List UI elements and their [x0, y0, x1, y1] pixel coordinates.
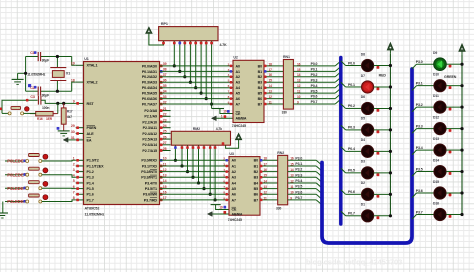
RP1 pin 5 vertical to P0.3	[189, 41, 191, 83]
svg-text:P2.7/A15: P2.7/A15	[142, 149, 157, 153]
svg-text:D8: D8	[361, 52, 365, 56]
svg-text:16: 16	[264, 168, 268, 172]
svg-text:3: 3	[73, 168, 75, 172]
svg-text:16: 16	[290, 157, 294, 161]
svg-text:B6: B6	[254, 193, 258, 197]
bus entry P3.1	[316, 166, 322, 171]
svg-text:GREEN: GREEN	[444, 75, 457, 79]
svg-text:11: 11	[264, 196, 267, 200]
junction rail D1	[389, 214, 392, 217]
resistor pack RM2 4.7k	[171, 131, 230, 145]
svg-text:P3.5/T1: P3.5/T1	[145, 187, 157, 191]
wire P3.1 from U1 to U3 A1	[160, 165, 230, 167]
svg-text:17: 17	[269, 68, 273, 72]
button K2 net P0LEDE	[5, 174, 26, 176]
svg-text:D14: D14	[433, 158, 439, 162]
svg-text:U3: U3	[229, 152, 233, 156]
svg-text:A6: A6	[232, 193, 236, 197]
svg-text:U1: U1	[84, 57, 89, 61]
svg-text:23: 23	[163, 118, 167, 122]
crystal X1 11.0592MHz	[50, 67, 66, 69]
junction rail D16	[460, 213, 463, 216]
capacitor C1 30pF	[37, 52, 39, 61]
RP1 pin 7 vertical to P0.5	[200, 41, 202, 93]
svg-text:A1: A1	[236, 70, 240, 74]
svg-text:CE: CE	[236, 112, 241, 116]
cathode rail left LED column	[389, 54, 391, 216]
svg-text:P0.1: P0.1	[311, 67, 318, 71]
svg-text:14: 14	[290, 168, 294, 172]
cathode rail right LED column	[461, 55, 463, 214]
junction RP1 on P0.7	[210, 102, 213, 105]
svg-text:D3: D3	[361, 160, 365, 164]
svg-text:13: 13	[264, 185, 268, 189]
svg-text:A6: A6	[236, 97, 240, 101]
wire LED D10 cathode to rail	[446, 85, 462, 87]
wire P3.6 from U1 to U3 A6	[160, 193, 230, 195]
svg-text:P0.7: P0.7	[348, 212, 355, 216]
svg-text:13: 13	[297, 79, 301, 83]
svg-text:B5: B5	[254, 187, 258, 191]
wire P0.3 from U1 to U2 A3	[160, 81, 234, 83]
svg-text:14: 14	[297, 73, 301, 77]
svg-text:A4: A4	[236, 86, 240, 90]
svg-text:P3.7: P3.7	[295, 196, 302, 200]
svg-text:10: 10	[290, 191, 294, 195]
wire P0.0 from U1 to U2 A0	[160, 65, 234, 67]
bus entry P3.6	[316, 194, 322, 199]
bus entry P3.3	[316, 177, 322, 182]
svg-text:A3: A3	[236, 81, 240, 85]
svg-text:P3.1: P3.1	[295, 162, 302, 166]
resistor R16 horizontal	[36, 112, 53, 116]
wire crystal ground branch	[25, 57, 27, 92]
bus entry P3.2	[316, 172, 322, 177]
svg-text:15: 15	[264, 174, 268, 178]
svg-text:27: 27	[163, 141, 167, 145]
svg-text:22: 22	[163, 113, 167, 117]
wire buttons common to ground	[2, 202, 4, 213]
RP1 pin 6 vertical to P0.4	[195, 41, 197, 88]
svg-text:B7: B7	[258, 102, 262, 106]
svg-text:RP1: RP1	[161, 22, 168, 26]
svg-text:P3.5: P3.5	[416, 167, 423, 171]
svg-text:A0: A0	[232, 159, 236, 163]
wire LED D8 cathode to rail	[374, 65, 391, 67]
svg-text:RM2: RM2	[193, 127, 200, 131]
svg-text:P0.0/AD0: P0.0/AD0	[142, 64, 157, 68]
wire P3.7 from U1 to U3 A7	[160, 199, 230, 201]
svg-text:13: 13	[290, 174, 294, 178]
wire button K2 to U1	[42, 175, 76, 178]
junction RP1 on P0.5	[200, 92, 203, 95]
bus exit P0.5 to LED D3	[341, 168, 346, 173]
wire LED D13 cathode to rail	[446, 149, 462, 151]
wire C3 to RST node	[41, 100, 75, 103]
wire LED D2 cathode to rail	[374, 193, 391, 195]
svg-text:P0.2: P0.2	[311, 73, 318, 77]
svg-text:P0.0: P0.0	[311, 62, 318, 66]
svg-text:P2.6/A14: P2.6/A14	[142, 143, 158, 147]
svg-text:74HC245: 74HC245	[232, 124, 246, 128]
svg-text:14: 14	[264, 179, 268, 183]
svg-text:RN2: RN2	[277, 151, 284, 155]
bus entry P0.1	[335, 66, 341, 71]
wire P0.4 from U1 to U2 A4	[160, 87, 234, 89]
junction RM2 on P3.6	[209, 193, 212, 196]
bus exit P3.5 to LED D14	[412, 172, 417, 177]
wire button K4 to U1	[42, 200, 76, 202]
svg-text:74HC245: 74HC245	[228, 218, 242, 222]
svg-text:18: 18	[264, 157, 268, 161]
VCC power arrow right LED column	[461, 51, 463, 55]
wire P3.0 from U1 to U3 A0	[160, 159, 230, 161]
wire P0.2 from U1 to U2 A2	[160, 76, 234, 78]
junction rail D5	[389, 128, 392, 131]
svg-text:P0LEDE: P0LEDE	[7, 159, 24, 164]
svg-text:B0: B0	[258, 64, 262, 68]
svg-text:U2: U2	[233, 56, 237, 60]
svg-text:A2: A2	[236, 75, 240, 79]
bus entry P0.6	[335, 94, 341, 99]
junction rail D2	[389, 193, 392, 196]
bus entry P0.3	[335, 77, 341, 82]
bus exit P3.2 to LED D11	[412, 107, 417, 112]
svg-text:P2.4/A12: P2.4/A12	[142, 132, 157, 136]
svg-text:B2: B2	[258, 75, 262, 79]
svg-text:14: 14	[269, 84, 273, 88]
state square near R17 ground	[57, 127, 60, 130]
junction rail D6	[389, 107, 392, 110]
RM2 pin vertical to P3.0	[174, 145, 176, 160]
svg-text:D9: D9	[433, 51, 437, 55]
svg-text:C3: C3	[30, 95, 34, 99]
svg-text:RN1: RN1	[283, 55, 290, 59]
button K1 net P0LEDE	[5, 160, 26, 162]
svg-text:P3.6: P3.6	[295, 190, 302, 194]
svg-text:B1: B1	[254, 164, 258, 168]
wire XTAL2 net: C2 to X1 bottom and U1 XTAL2	[26, 90, 38, 92]
junction RM2 on P3.4	[197, 181, 200, 184]
wire LED D3 cathode to rail	[374, 172, 391, 174]
svg-text:12: 12	[264, 191, 268, 195]
svg-text:7: 7	[73, 191, 75, 195]
RM2 pin vertical to P3.1	[181, 145, 183, 166]
resistor network RN1 330	[283, 60, 293, 110]
bus entry P3.4	[316, 183, 322, 188]
svg-text:13: 13	[269, 90, 273, 94]
svg-text:P3.2: P3.2	[416, 103, 423, 107]
svg-text:P3.1/TXD: P3.1/TXD	[142, 164, 158, 168]
wire P0.6 from U1 to U2 A6	[160, 98, 234, 100]
red cap of button K2	[43, 168, 48, 173]
svg-text:P3.4: P3.4	[416, 146, 423, 150]
RM2 pin vertical to P3.5	[203, 145, 205, 188]
junction RM2 on P3.0	[174, 159, 177, 162]
IC U2 74HC245 body	[233, 60, 264, 122]
svg-text:15: 15	[290, 162, 294, 166]
svg-text:P2.2/A10: P2.2/A10	[142, 120, 157, 124]
svg-text:A4: A4	[232, 181, 236, 185]
RP1 pin 9 vertical to P0.7	[211, 41, 213, 109]
terminal arrow on U3 AB/BA	[212, 213, 229, 215]
svg-text:B7: B7	[254, 198, 258, 202]
svg-text:P0.3/AD3: P0.3/AD3	[142, 81, 157, 85]
wire VCC to C3	[2, 99, 38, 101]
junction crystal gnd	[24, 72, 27, 75]
junction RM2 on P3.7	[214, 198, 217, 201]
svg-text:P3.4: P3.4	[295, 179, 302, 183]
bus exit P3.6 to LED D15	[412, 193, 417, 198]
svg-text:P0.4/AD4: P0.4/AD4	[142, 86, 158, 90]
svg-text:P3.2/INT0: P3.2/INT0	[141, 170, 157, 174]
wire P3.4 from U1 to U3 A4	[160, 182, 230, 184]
svg-text:P3.6: P3.6	[416, 189, 423, 193]
wire LED D6 cathode to rail	[374, 107, 391, 109]
junction rail D8	[389, 64, 392, 67]
svg-text:19: 19	[223, 110, 227, 114]
svg-text:30pF: 30pF	[42, 59, 50, 63]
svg-text:P1.1/T2EX: P1.1/T2EX	[87, 164, 105, 168]
svg-text:P3.5: P3.5	[295, 185, 302, 189]
red cap of reset button	[25, 107, 30, 112]
svg-text:2: 2	[73, 162, 75, 166]
bus exit P0.7 to LED D1	[341, 211, 346, 216]
svg-text:D12: D12	[433, 115, 439, 119]
svg-text:D15: D15	[433, 180, 439, 184]
svg-text:29: 29	[71, 124, 75, 128]
RP1 pin 8 vertical to P0.6	[205, 41, 207, 99]
svg-text:P0.4: P0.4	[311, 84, 318, 88]
svg-text:P3.1: P3.1	[416, 81, 423, 85]
resistor R17 4k7 vertical	[61, 108, 66, 124]
wire LED D15 cathode to rail	[446, 192, 462, 194]
IC U3 74HC245 body	[229, 157, 260, 216]
RN1 output wires with net labels P0.x	[293, 65, 335, 67]
svg-text:16: 16	[297, 62, 301, 66]
svg-text:P0.1: P0.1	[348, 83, 355, 87]
svg-text:P1.7: P1.7	[87, 198, 94, 202]
wire P3.5 from U1 to U3 A5	[160, 188, 230, 190]
svg-text:P2.0/A8: P2.0/A8	[144, 109, 157, 113]
svg-text:P0.5: P0.5	[311, 89, 318, 93]
junction RP1 on P0.1	[178, 70, 181, 73]
svg-text:P3.2: P3.2	[295, 168, 302, 172]
svg-text:A7: A7	[236, 102, 240, 106]
svg-text:A2: A2	[232, 170, 236, 174]
svg-text:11.0592MHz: 11.0592MHz	[85, 212, 105, 216]
junction rail D3	[389, 171, 392, 174]
svg-text:RED: RED	[379, 73, 387, 77]
wire P3.3 from U1 to U3 A3	[160, 176, 230, 178]
inverted ground on U2 CE	[212, 108, 224, 110]
capacitor C3 100n	[37, 96, 39, 105]
svg-text:19: 19	[219, 205, 223, 209]
svg-text:XTAL1: XTAL1	[87, 64, 98, 68]
junction RM2 on P3.2	[186, 170, 189, 173]
svg-text:A5: A5	[232, 187, 236, 191]
wire P0.1 from U1 to U2 A1	[160, 70, 234, 72]
svg-text:4.7K: 4.7K	[220, 43, 228, 47]
svg-text:P0.3: P0.3	[311, 78, 318, 82]
svg-text:P3.0: P3.0	[295, 156, 302, 160]
svg-text:P3.0/RXD: P3.0/RXD	[141, 159, 157, 163]
svg-text:D1: D1	[361, 203, 365, 207]
svg-text:B5: B5	[258, 92, 262, 96]
svg-text:4k7: 4k7	[67, 115, 72, 119]
U2 B side wires to RN1	[264, 65, 283, 67]
svg-text:P3.0: P3.0	[416, 60, 423, 64]
RP1 pin 2 vertical to P0.0	[173, 41, 175, 66]
svg-text:P0.6: P0.6	[311, 95, 318, 99]
junction rail D10	[460, 84, 463, 87]
junction RST-R16	[56, 102, 59, 105]
ground under R17	[58, 130, 70, 132]
svg-text:B6: B6	[258, 97, 262, 101]
svg-text:D10: D10	[433, 72, 439, 76]
svg-text:4.7k: 4.7k	[216, 127, 222, 131]
wire LED D7 cathode to rail	[374, 86, 391, 88]
svg-text:12: 12	[290, 179, 294, 183]
svg-text:P0.2: P0.2	[348, 104, 355, 108]
wire P0.5 from U1 to U2 A5	[160, 92, 234, 94]
svg-text:24: 24	[163, 124, 167, 128]
junction RM2 on P3.1	[180, 164, 183, 167]
RP1 pin 3 vertical to P0.1	[179, 41, 181, 72]
IC U1 AT89C52 body	[84, 62, 160, 205]
svg-text:16: 16	[269, 73, 273, 77]
bus exit P0.1 to LED D7	[341, 82, 346, 87]
junction RP1 on P0.4	[194, 86, 197, 89]
wire LED D14 cathode to rail	[446, 171, 462, 173]
svg-text:P0.0: P0.0	[348, 61, 355, 65]
svg-text:P3.4/T0: P3.4/T0	[145, 181, 157, 185]
svg-text:A0: A0	[236, 64, 240, 68]
bus exit P3.0 to LED D9	[412, 64, 417, 69]
svg-text:15: 15	[297, 68, 301, 72]
svg-text:AB/BA: AB/BA	[236, 117, 247, 121]
bus exit P0.6 to LED D2	[341, 190, 346, 195]
svg-text:RST: RST	[87, 102, 95, 106]
svg-text:P3.3: P3.3	[295, 173, 302, 177]
wire P0.7 from U1 to U2 A7	[160, 103, 234, 105]
bus P0 vertical blue	[339, 58, 343, 225]
wire button K1 to U1	[42, 159, 76, 162]
svg-text:R17: R17	[67, 110, 73, 114]
bus exit P0.0 to LED D8	[341, 61, 346, 66]
reset button K5	[1, 100, 3, 113]
button K4 net P3LEDE	[5, 201, 26, 203]
svg-text:19: 19	[71, 62, 75, 66]
junction RP1 on P0.6	[205, 97, 208, 100]
svg-text:P2.3/A11: P2.3/A11	[143, 126, 157, 130]
svg-text:100n: 100n	[42, 106, 49, 110]
junction RM2 on P3.5	[202, 187, 205, 190]
svg-text:blog.csdn.net/qq_42453703: blog.csdn.net/qq_42453703	[306, 258, 402, 267]
red cap of button K3	[43, 181, 48, 186]
svg-text:9: 9	[73, 100, 75, 104]
RP1 pin 4 vertical to P0.2	[184, 41, 186, 77]
svg-text:D11: D11	[433, 94, 439, 98]
bus entry P3.5	[316, 189, 322, 194]
svg-text:17: 17	[264, 162, 268, 166]
svg-text:R16: R16	[37, 117, 43, 121]
svg-text:26: 26	[163, 135, 167, 139]
junction on XTAL2 net	[56, 90, 59, 93]
svg-text:28: 28	[163, 147, 167, 151]
bus entry P3.0	[316, 160, 322, 165]
svg-text:PSEN: PSEN	[87, 126, 97, 130]
U1 left pin stubs with numbers	[76, 64, 84, 66]
svg-text:P0.7: P0.7	[311, 100, 318, 104]
red cap of button K1	[43, 154, 48, 159]
svg-text:P2.1/A9: P2.1/A9	[144, 115, 157, 119]
svg-text:X1: X1	[66, 72, 70, 76]
svg-text:P1.0/T2: P1.0/T2	[87, 159, 99, 163]
bus entry P0.4	[335, 83, 341, 88]
svg-text:1ER: 1ER	[46, 117, 53, 121]
RM2 pin vertical to P3.2	[187, 145, 189, 171]
bus exit P0.2 to LED D6	[341, 104, 346, 109]
svg-text:P0.6: P0.6	[348, 190, 355, 194]
wire reset button to R16	[24, 112, 36, 114]
svg-text:D5: D5	[361, 117, 365, 121]
resistor network RN2 330	[278, 155, 288, 204]
svg-text:15: 15	[269, 79, 273, 83]
svg-text:CE: CE	[232, 208, 237, 212]
ground for crystal caps	[12, 78, 24, 80]
wire LED D9 cathode to rail	[446, 63, 462, 65]
svg-text:B3: B3	[258, 81, 262, 85]
bus entry P0.2	[335, 72, 341, 77]
junction rail D15	[460, 191, 463, 194]
svg-text:ALE: ALE	[87, 132, 95, 136]
svg-text:330: 330	[282, 111, 287, 115]
wire LED D4 cathode to rail	[374, 150, 391, 152]
bus entry P0.7	[335, 99, 341, 104]
svg-text:18: 18	[71, 78, 75, 82]
svg-text:11.0592MHz: 11.0592MHz	[27, 73, 45, 77]
wire XTAL1 net: C1 to X1 top and U1 XTAL1	[26, 56, 38, 58]
svg-text:P1.4: P1.4	[87, 181, 95, 185]
svg-text:D16: D16	[433, 201, 439, 205]
svg-text:5: 5	[73, 179, 75, 183]
svg-text:P3LEDE: P3LEDE	[7, 186, 24, 191]
svg-text:18: 18	[269, 62, 273, 66]
RM2 common pin to VCC	[226, 140, 239, 149]
resistor pack RP1 4.7K	[159, 27, 218, 41]
VCC power arrow left LED column	[389, 50, 391, 54]
svg-text:B4: B4	[258, 86, 262, 90]
junction rail D13	[460, 148, 463, 151]
svg-text:B2: B2	[254, 170, 258, 174]
bus entry P0.0	[335, 61, 341, 66]
svg-text:P2.5/A13: P2.5/A13	[142, 138, 157, 142]
bus exit P3.1 to LED D10	[412, 86, 417, 91]
bus entry P3.7	[316, 200, 322, 205]
junction RP1 on P0.3	[189, 81, 192, 84]
wire LED D12 cathode to rail	[446, 128, 462, 130]
svg-text:25: 25	[163, 130, 167, 134]
svg-text:D2: D2	[361, 181, 365, 185]
junction RST-R17	[62, 102, 65, 105]
wire LED D16 cathode to rail	[446, 213, 462, 215]
svg-text:A3: A3	[232, 176, 236, 180]
svg-text:EA: EA	[87, 138, 92, 142]
terminal arrow on U2 AB/BA	[216, 117, 233, 119]
svg-text:11: 11	[290, 185, 293, 189]
svg-text:P1.2: P1.2	[87, 170, 94, 174]
